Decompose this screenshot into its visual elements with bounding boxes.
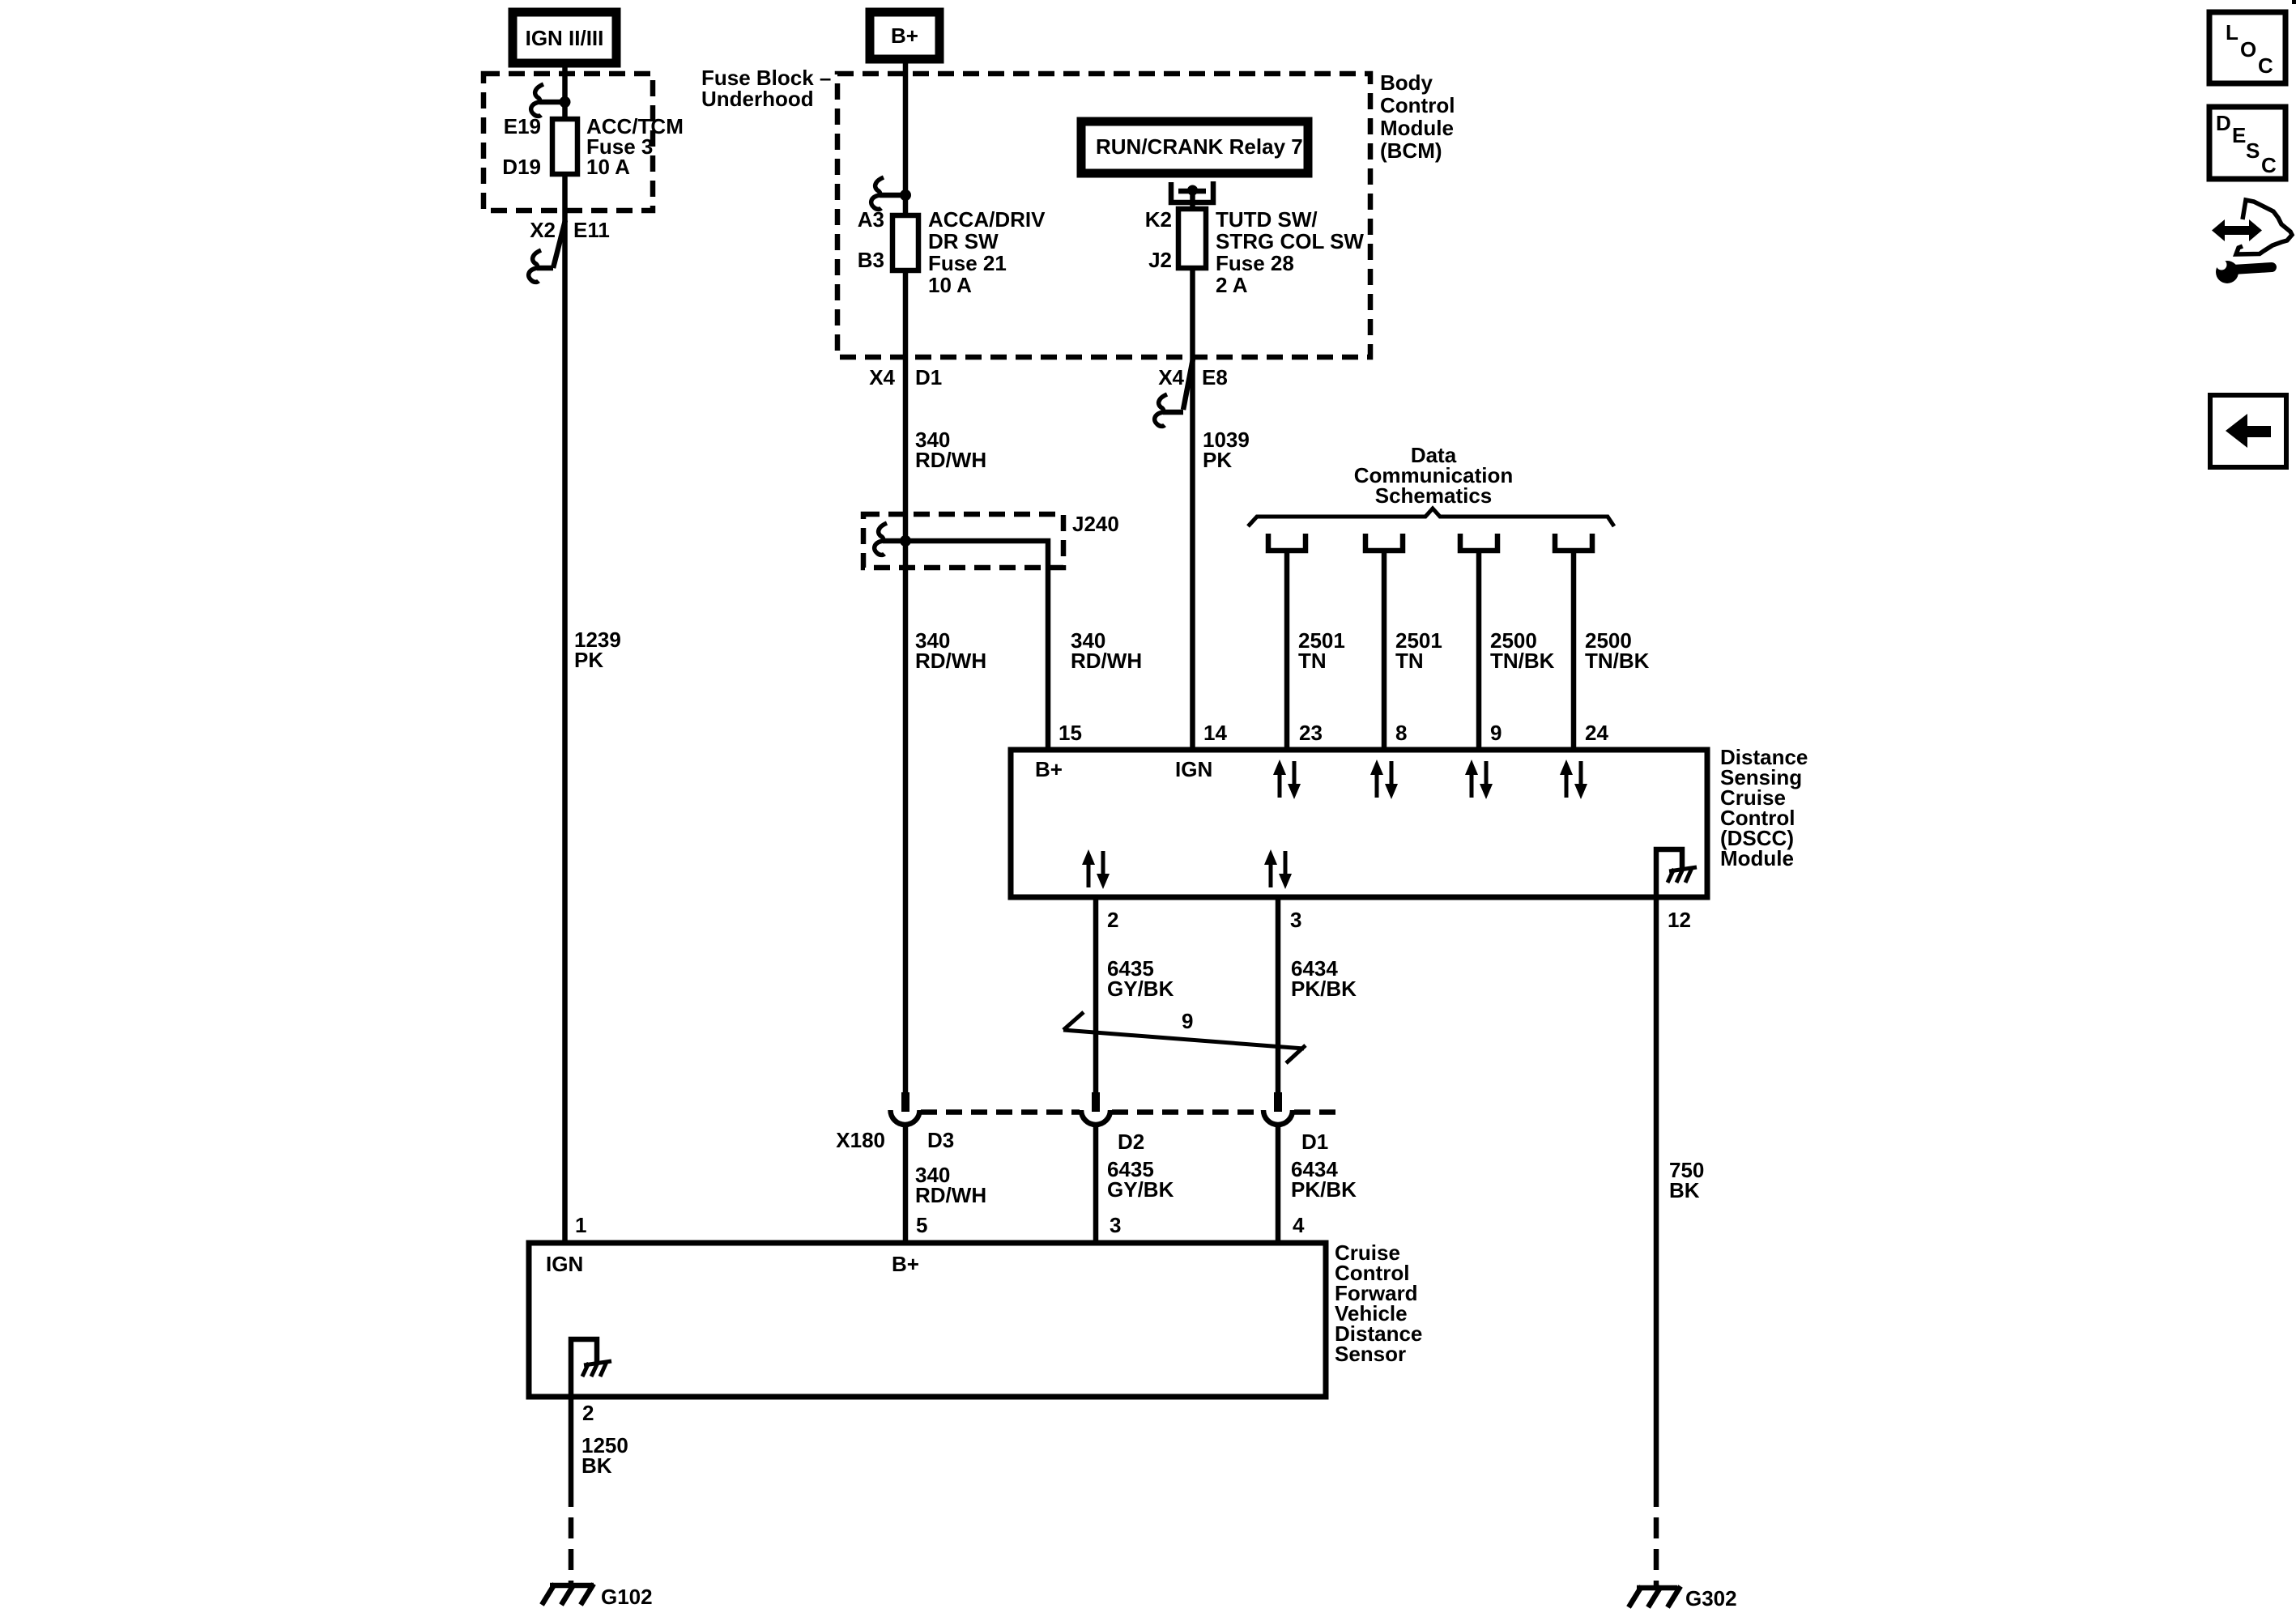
svg-text:B3: B3 [858,248,884,272]
page corner mark [2292,0,2296,4]
DSCC bidirectional arrows pin 8 [1370,760,1398,799]
icon back-arrow box [2210,395,2286,467]
wire 2501 TN pin 8 [1382,553,1387,750]
sensor pin 3 label [1110,1213,1121,1237]
svg-text:X4: X4 [1158,365,1184,389]
wire 6434 PK/BK from DSCC pin 3 to X180 D1 [1276,897,1281,1092]
svg-text:S: S [2246,138,2260,163]
svg-text:10 A: 10 A [586,155,630,179]
pin K2 label [1145,207,1172,232]
sensor label [1335,1240,1422,1366]
svg-text:Fuse 21: Fuse 21 [928,251,1007,275]
wire 6435 GY/BK label upper [1107,956,1174,1001]
wire 6435 GY/BK from X180 D2 to sensor pin 3 [1093,1125,1099,1243]
pin D1 label [1301,1130,1328,1154]
wire 340 RD/WH from X180 D3 to sensor pin 5 [903,1125,909,1243]
wire 1039 PK from Fuse 28 to DSCC pin 14 [1190,268,1195,750]
svg-text:IGN: IGN [546,1252,583,1276]
wire 340 RD/WH from Fuse 21 down to X180 D3 [903,270,909,1092]
DSCC internal B+ label [1035,757,1063,781]
svg-text:8: 8 [1395,721,1407,745]
svg-text:RD/WH: RD/WH [915,649,986,673]
wire 340 RD/WH label branch [1071,628,1142,673]
svg-text:(BCM): (BCM) [1380,138,1442,163]
wire 340 RD/WH label upper [915,428,986,472]
svg-text:1: 1 [575,1213,586,1237]
svg-text:E: E [2232,123,2246,147]
svg-text:RD/WH: RD/WH [1071,649,1142,673]
svg-text:TUTD SW/: TUTD SW/ [1216,207,1318,232]
wire 2500 TN/BK label 2 [1585,628,1650,673]
fuse F28 value label [1216,207,1364,297]
BCM label [1380,70,1455,163]
wire 1250 BK from sensor pin 2 to G102 [569,1397,574,1507]
DSCC bidirectional arrows pin 9 [1465,760,1493,799]
wire 340 RD/WH label lower left [915,628,986,673]
pin E19 label [504,114,541,138]
ground G302 label [1685,1586,1737,1611]
svg-text:L: L [2226,20,2238,45]
svg-text:RD/WH: RD/WH [915,448,986,472]
twisted pair count label 9 [1182,1009,1193,1033]
wire 750 BK dashed section [1654,1517,1659,1588]
svg-text:Sensor: Sensor [1335,1342,1406,1366]
connector X180 terminal D2 [1081,1092,1110,1125]
DSCC pin 9 label [1490,721,1502,745]
svg-text:B+: B+ [1035,757,1063,781]
svg-text:TN: TN [1395,649,1424,673]
svg-text:D: D [2216,111,2231,135]
pin D3 label [927,1128,954,1152]
pin B3 label [858,248,884,272]
svg-text:X180: X180 [836,1128,885,1152]
pin D1 label [915,365,942,389]
DSCC internal IGN label [1175,757,1212,781]
DSCC pin 12 label [1668,908,1691,932]
svg-text:14: 14 [1203,721,1227,745]
wire 2501 TN label 1 [1298,628,1345,673]
svg-text:DR SW: DR SW [928,229,999,253]
fuse block label [701,66,831,111]
svg-text:C: C [2261,153,2277,177]
pin E8 label [1202,365,1228,389]
DSCC module label [1720,745,1808,870]
pin D2 label [1118,1130,1144,1154]
svg-text:2: 2 [1107,908,1118,932]
sensor pin 4 label [1293,1213,1305,1237]
svg-text:PK/BK: PK/BK [1291,977,1357,1001]
svg-text:D1: D1 [1301,1130,1328,1154]
connector X180 terminal D1 [1263,1092,1293,1125]
fuse F21 value label [928,207,1046,297]
icon vehicle with arrow and wrench [2212,200,2292,283]
pin D19 label [502,155,541,179]
svg-text:PK: PK [1203,448,1232,472]
fuse F21 ACCA/DRIV DR SW 10A [892,215,918,270]
wire 2500 TN/BK pin 9 [1476,553,1482,750]
data bus connector 2 [1365,534,1403,551]
BCM dashed box [837,74,1370,357]
svg-text:PK: PK [574,648,603,672]
wire from IGN II/III to Fuse 3 [562,63,568,119]
wire 750 BK from DSCC pin 12 to G302 [1654,897,1659,1507]
junction A3 with clip [871,177,911,209]
sensor internal B+ label [892,1252,919,1276]
wire 2500 TN/BK pin 24 [1571,553,1577,750]
svg-text:E8: E8 [1202,365,1228,389]
data bus connector 3 [1460,534,1497,551]
data communication schematics label [1354,443,1513,508]
svg-text:J240: J240 [1072,512,1119,536]
svg-text:Module: Module [1380,116,1454,140]
svg-text:2: 2 [582,1401,594,1425]
svg-text:5: 5 [916,1213,927,1237]
DSCC pin 2 label [1107,908,1118,932]
svg-text:A3: A3 [858,207,884,232]
svg-text:23: 23 [1299,721,1323,745]
wire 340 RD/WH branch from J240 to DSCC pin 15 [905,541,1048,750]
data bus connector 1 [1268,534,1306,551]
svg-text:15: 15 [1059,721,1082,745]
svg-text:9: 9 [1182,1009,1193,1033]
svg-text:K2: K2 [1145,207,1172,232]
ground G302 [1629,1586,1680,1607]
wire 6435 GY/BK from DSCC pin 2 to X180 D2 [1093,897,1099,1092]
svg-text:C: C [2258,53,2273,78]
svg-text:Fuse 28: Fuse 28 [1216,251,1294,275]
svg-text:Body: Body [1380,70,1433,95]
svg-text:Underhood: Underhood [701,87,814,111]
connector X180 terminal D3 [891,1092,920,1125]
pin A3 label [858,207,884,232]
DSCC bidirectional arrows pin 2 [1082,849,1110,889]
svg-text:B+: B+ [891,23,918,48]
fuse block underhood dashed box [483,74,653,211]
sensor box Cruise Control Forward Vehicle Distance Sensor [529,1243,1326,1397]
DSCC pin 3 label [1290,908,1301,932]
svg-text:J2: J2 [1148,248,1172,272]
connector X4/E8 slash and clip [1155,359,1193,426]
wire 340 RD/WH label bottom [915,1163,986,1207]
power node B+ [870,12,939,59]
DSCC bidirectional arrows pin 23 [1273,760,1301,799]
DSCC bidirectional arrows pin 3 [1264,849,1292,889]
svg-text:Control: Control [1380,93,1455,117]
svg-text:D2: D2 [1118,1130,1144,1154]
wire from B+ to Fuse 21 [903,59,909,215]
connector X4 label (E8 side) [1158,365,1184,389]
fuse F3 ACC/TCM 10A [552,119,577,174]
svg-text:2 A: 2 A [1216,273,1248,297]
svg-text:Module: Module [1720,846,1794,870]
sensor pin 2 label [582,1401,594,1425]
splice J240 label [1072,512,1119,536]
svg-text:Schematics: Schematics [1375,483,1493,508]
sensor pin 5 label [916,1213,927,1237]
svg-text:RUN/CRANK Relay 7: RUN/CRANK Relay 7 [1096,134,1303,159]
wire 1239 PK label [574,628,621,672]
svg-text:ACCA/DRIV: ACCA/DRIV [928,207,1046,232]
ground G102 [542,1584,594,1605]
svg-text:12: 12 [1668,908,1691,932]
pin J2 label [1148,248,1172,272]
junction E19 with clip [531,84,571,116]
svg-text:STRG COL SW: STRG COL SW [1216,229,1364,253]
wire 6434 PK/BK from X180 D1 to sensor pin 4 [1276,1125,1281,1243]
connector X2/E11 slash and clip [529,220,565,282]
svg-text:4: 4 [1293,1213,1305,1237]
DSCC pin 14 label [1203,721,1227,745]
svg-text:O: O [2240,37,2256,62]
DSCC internal ground pin 12 [1656,849,1697,897]
connector X2 label [530,218,556,242]
wire 2501 TN pin 23 [1284,553,1290,750]
DSCC bidirectional arrows pin 24 [1560,760,1587,799]
wire 2500 TN/BK label 1 [1490,628,1555,673]
wire 1039 PK label [1203,428,1250,472]
DSCC pin 15 label [1059,721,1082,745]
svg-text:24: 24 [1585,721,1608,745]
module U1 DSCC box [1011,750,1707,897]
ground G102 label [601,1585,653,1609]
svg-text:PK/BK: PK/BK [1291,1177,1357,1202]
svg-text:X2: X2 [530,218,556,242]
svg-text:X4: X4 [869,365,895,389]
svg-text:G302: G302 [1685,1586,1737,1611]
svg-text:BK: BK [581,1453,612,1478]
connector X180 label [836,1128,885,1152]
svg-text:3: 3 [1110,1213,1121,1237]
svg-text:D19: D19 [502,155,541,179]
wire 6434 PK/BK label lower [1291,1157,1357,1202]
svg-text:BK: BK [1669,1178,1700,1202]
data bus connector 4 [1555,534,1592,551]
twisted pair marker 9 [1063,1012,1306,1063]
connector X180 dashed line [921,1109,1344,1115]
svg-text:GY/BK: GY/BK [1107,977,1174,1001]
fuse F28 TUTD SW/STRG COL SW 2A [1178,209,1206,268]
connector E11 label [573,218,610,242]
sensor pin 1 label [575,1213,586,1237]
svg-text:3: 3 [1290,908,1301,932]
svg-text:TN/BK: TN/BK [1490,649,1555,673]
DSCC pin 24 label [1585,721,1608,745]
fuse F3 value label [586,114,684,179]
DSCC pin 23 label [1299,721,1323,745]
svg-text:9: 9 [1490,721,1502,745]
svg-text:TN: TN [1298,649,1327,673]
relay terminal brackets and node [1171,181,1213,202]
svg-text:GY/BK: GY/BK [1107,1177,1174,1202]
wire 1239 PK from Fuse 3 to sensor pin 1 [562,174,568,1243]
wire 750 BK label [1669,1158,1704,1202]
wire from relay to Fuse 28 [1190,191,1195,209]
brace for data communication schematics [1248,509,1614,526]
svg-text:B+: B+ [892,1252,919,1276]
svg-text:E11: E11 [573,218,610,242]
sensor internal IGN label [546,1252,583,1276]
svg-text:G102: G102 [601,1585,653,1609]
svg-text:E19: E19 [504,114,541,138]
svg-text:IGN II/III: IGN II/III [526,26,604,50]
wire 1250 BK label [581,1433,628,1478]
wire 1250 BK dashed section [569,1517,574,1586]
icon DESC box [2209,107,2285,179]
svg-text:IGN: IGN [1175,757,1212,781]
DSCC pin 8 label [1395,721,1407,745]
wire 6434 PK/BK label upper [1291,956,1357,1001]
junction J240 splice dot with clip [875,523,911,555]
power node IGN II/III [513,12,616,63]
wire 2501 TN label 2 [1395,628,1442,673]
wire 6435 GY/BK label lower [1107,1157,1174,1202]
svg-text:RD/WH: RD/WH [915,1183,986,1207]
svg-text:D3: D3 [927,1128,954,1152]
connector X4 label (D1 side) [869,365,895,389]
icon LOC box [2209,12,2285,83]
svg-text:10 A: 10 A [928,273,972,297]
splice J240 dashed box [863,514,1063,568]
svg-text:TN/BK: TN/BK [1585,649,1650,673]
sensor internal ground pin 2 [571,1339,611,1397]
svg-text:D1: D1 [915,365,942,389]
relay RUN/CRANK Relay 7 label box [1081,121,1308,173]
